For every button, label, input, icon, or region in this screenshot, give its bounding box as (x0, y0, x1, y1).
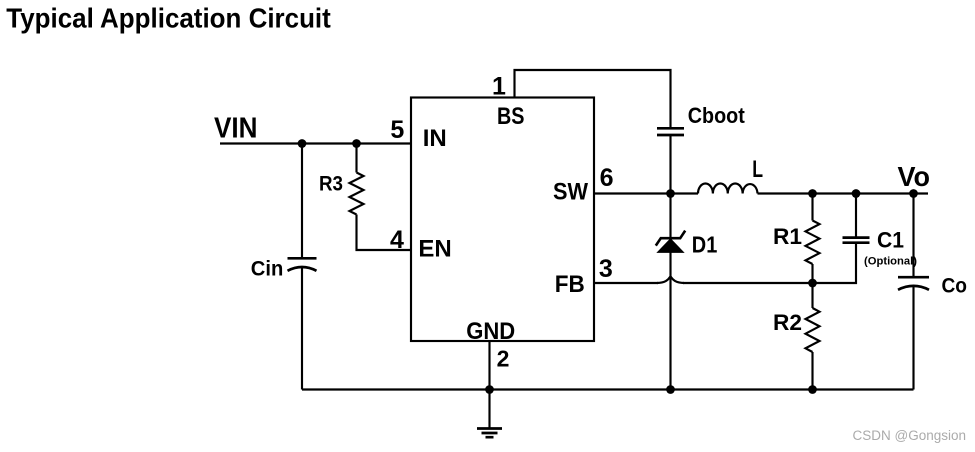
svg-text:BS: BS (497, 103, 525, 130)
svg-text:Typical Application Circuit: Typical Application Circuit (6, 2, 331, 33)
svg-text:IN: IN (423, 125, 447, 152)
svg-text:Cin: Cin (251, 258, 283, 281)
svg-text:Co: Co (942, 275, 968, 298)
svg-text:2: 2 (497, 345, 510, 371)
svg-text:GND: GND (466, 318, 515, 345)
svg-text:(Optional): (Optional) (864, 256, 917, 268)
svg-text:R1: R1 (773, 224, 802, 249)
svg-text:FB: FB (555, 271, 585, 298)
svg-text:VIN: VIN (214, 113, 258, 145)
svg-text:R3: R3 (319, 173, 343, 196)
svg-text:5: 5 (390, 116, 404, 144)
svg-text:4: 4 (390, 226, 404, 254)
svg-text:C1: C1 (877, 227, 904, 252)
svg-text:R2: R2 (773, 310, 802, 335)
svg-text:SW: SW (553, 179, 588, 206)
svg-text:D1: D1 (692, 231, 718, 257)
svg-text:L: L (752, 156, 763, 183)
svg-text:3: 3 (599, 255, 613, 283)
svg-text:1: 1 (492, 73, 506, 101)
svg-text:6: 6 (600, 164, 614, 192)
svg-text:CSDN @Gongsion: CSDN @Gongsion (853, 428, 967, 443)
svg-text:EN: EN (418, 236, 451, 263)
svg-text:Vo: Vo (898, 161, 931, 192)
svg-text:Cboot: Cboot (688, 103, 745, 128)
